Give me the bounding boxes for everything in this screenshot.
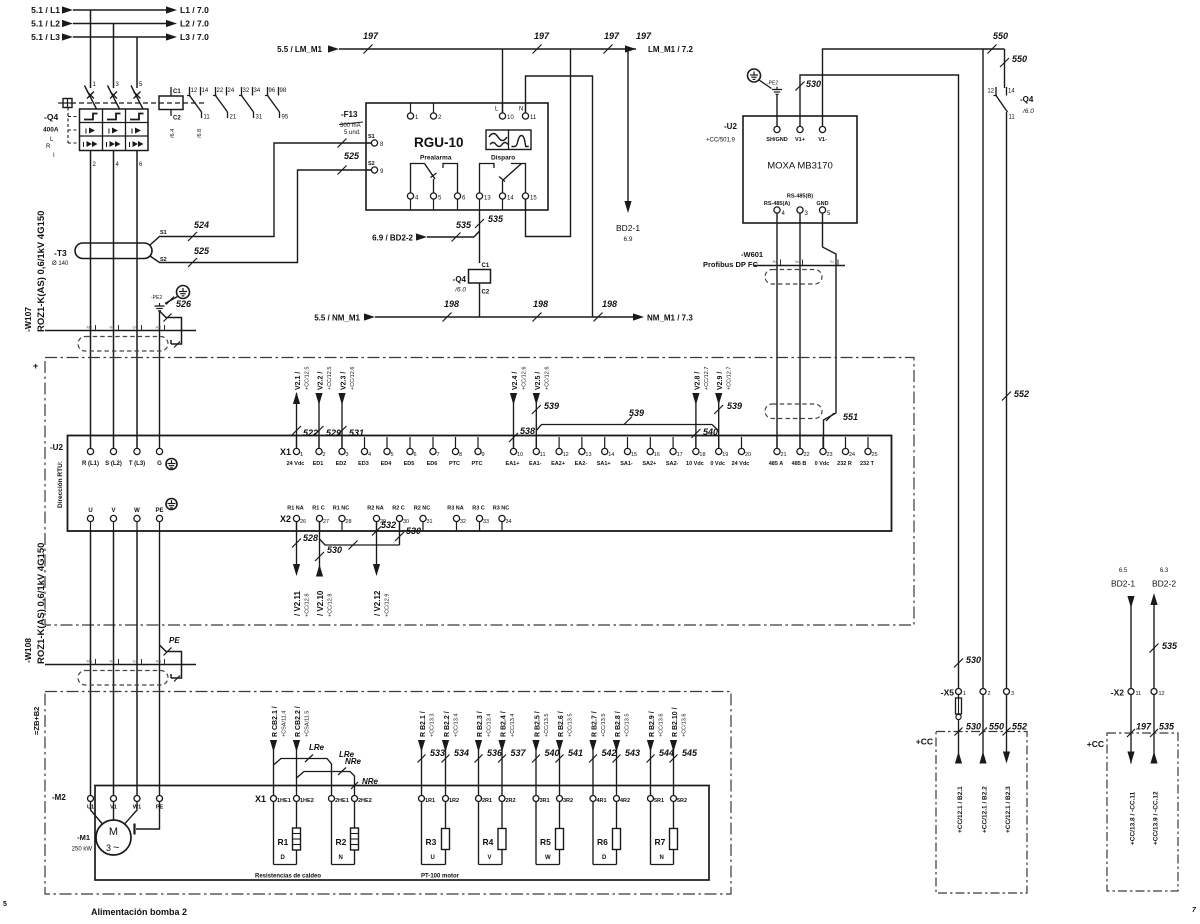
svg-text:D: D bbox=[602, 855, 607, 861]
svg-text:-X2: -X2 bbox=[1111, 688, 1125, 698]
svg-text:L1 / 7.0: L1 / 7.0 bbox=[180, 5, 209, 15]
latch symbol bbox=[130, 114, 144, 120]
svg-text:R1 NA: R1 NA bbox=[287, 506, 304, 512]
svg-text:536: 536 bbox=[487, 748, 503, 758]
svg-text:22: 22 bbox=[217, 88, 224, 94]
svg-text:552: 552 bbox=[1014, 389, 1029, 399]
svg-text:PTC: PTC bbox=[472, 461, 483, 467]
svg-text:+CC/12.9: +CC/12.9 bbox=[385, 594, 391, 617]
M2 terminal 2HE1 bbox=[329, 796, 335, 802]
svg-text:BD2-1: BD2-1 bbox=[616, 223, 640, 233]
svg-text:R3: R3 bbox=[426, 837, 437, 847]
svg-text:550: 550 bbox=[1012, 54, 1027, 64]
svg-text:+CC/12.6: +CC/12.6 bbox=[350, 367, 356, 390]
svg-text:+CC/12.5: +CC/12.5 bbox=[327, 367, 333, 390]
net reference V2.2 bbox=[318, 393, 320, 448]
svg-text:+CC/13.9 / -CC.12: +CC/13.9 / -CC.12 bbox=[1153, 791, 1160, 845]
svg-text:+CC/12.7: +CC/12.7 bbox=[704, 367, 710, 390]
svg-text:197: 197 bbox=[636, 31, 652, 41]
svg-text:R6: R6 bbox=[597, 837, 608, 847]
svg-text:5: 5 bbox=[3, 901, 7, 908]
M2 terminal 3R2 bbox=[557, 796, 563, 802]
svg-text:NM_M1 / 7.3: NM_M1 / 7.3 bbox=[647, 314, 693, 323]
svg-text:-Q4: -Q4 bbox=[44, 112, 58, 122]
X1 pin 3 bbox=[341, 437, 343, 448]
svg-text:ED5: ED5 bbox=[404, 461, 415, 467]
svg-text:19: 19 bbox=[722, 452, 728, 458]
svg-text:26: 26 bbox=[300, 519, 306, 525]
svg-text:+CC/13.5: +CC/13.5 bbox=[544, 714, 550, 737]
svg-text:8: 8 bbox=[459, 452, 462, 458]
svg-text:96: 96 bbox=[269, 88, 276, 94]
svg-text:-PE2: -PE2 bbox=[151, 295, 162, 301]
svg-text:RS-485(B): RS-485(B) bbox=[787, 194, 813, 200]
resistor R4 PT-100 bbox=[478, 802, 480, 865]
M2 terminal V1 bbox=[111, 796, 117, 802]
svg-text:12: 12 bbox=[987, 89, 994, 95]
X1 pin 9 bbox=[477, 437, 479, 448]
svg-text:530: 530 bbox=[966, 722, 981, 732]
breaker trip unit box bbox=[80, 109, 149, 151]
svg-text:+CC/13.6: +CC/13.6 bbox=[659, 714, 665, 737]
wire N from RGU to NM bbox=[526, 76, 593, 317]
svg-text:RGU-10: RGU-10 bbox=[414, 135, 464, 150]
svg-text:W: W bbox=[134, 508, 140, 514]
svg-text:-W108: -W108 bbox=[23, 638, 33, 663]
svg-text:G: G bbox=[157, 461, 162, 467]
svg-text:3: 3 bbox=[346, 452, 349, 458]
svg-text:+CC/12.7: +CC/12.7 bbox=[727, 367, 733, 390]
svg-text:6.9: 6.9 bbox=[623, 236, 632, 243]
svg-text:14: 14 bbox=[1008, 89, 1015, 95]
+CC enclosure right bbox=[1107, 733, 1178, 891]
jumper NRe bbox=[297, 772, 355, 796]
svg-text:6.3: 6.3 bbox=[1160, 568, 1169, 574]
+CC enclosure left bbox=[936, 732, 1027, 894]
wire pole6 down bbox=[136, 151, 138, 449]
svg-text:21: 21 bbox=[230, 115, 237, 121]
svg-text:534: 534 bbox=[454, 748, 469, 758]
wire V1 bbox=[113, 531, 115, 795]
svg-text:R1 NC: R1 NC bbox=[333, 506, 350, 512]
svg-text:Gr: Gr bbox=[133, 325, 138, 330]
resistor R7 PT-100 bbox=[650, 802, 652, 865]
svg-text:V2.1 /: V2.1 / bbox=[295, 372, 302, 390]
X1 pin 14 bbox=[604, 437, 606, 448]
svg-text:2HE1: 2HE1 bbox=[335, 798, 349, 804]
RGU pin 14 bbox=[499, 193, 505, 199]
svg-text:NRe: NRe bbox=[362, 777, 379, 786]
svg-text:530: 530 bbox=[327, 545, 342, 555]
svg-text:Resistencias de caldeo: Resistencias de caldeo bbox=[255, 874, 321, 880]
RGU pin 6 bbox=[454, 193, 460, 199]
X1 pin 7 bbox=[432, 437, 434, 448]
svg-text:R: R bbox=[46, 144, 51, 150]
svg-text:95: 95 bbox=[282, 115, 289, 121]
MOXA terminal V1- bbox=[819, 126, 825, 132]
X1 pin 10 bbox=[513, 437, 515, 448]
X1 pin 21 bbox=[776, 437, 778, 448]
svg-text:531: 531 bbox=[349, 428, 364, 438]
svg-text:535: 535 bbox=[1162, 641, 1178, 651]
svg-text:BD2-1: BD2-1 bbox=[1111, 579, 1135, 589]
svg-text:ED6: ED6 bbox=[427, 461, 438, 467]
svg-text:1: 1 bbox=[300, 452, 303, 458]
svg-text:ED2: ED2 bbox=[336, 461, 347, 467]
W601 shield oval lower bbox=[765, 404, 822, 419]
svg-text:15: 15 bbox=[530, 196, 537, 202]
svg-text:250 kW: 250 kW bbox=[72, 847, 93, 853]
svg-text:2HE2: 2HE2 bbox=[358, 798, 372, 804]
svg-text:V2.4 /: V2.4 / bbox=[512, 372, 519, 390]
M2 terminal 2R2 bbox=[499, 796, 505, 802]
latch symbol bbox=[107, 114, 121, 120]
svg-text:/6.8: /6.8 bbox=[197, 129, 203, 138]
svg-text:+CC/13.4: +CC/13.4 bbox=[487, 714, 493, 737]
svg-text:12: 12 bbox=[563, 452, 569, 458]
M2 terminal PE bbox=[157, 796, 163, 802]
svg-text:+CC/13.5: +CC/13.5 bbox=[625, 714, 631, 737]
M2 terminal U1 bbox=[88, 796, 94, 802]
svg-text:EA2+: EA2+ bbox=[551, 461, 565, 467]
svg-text:Ma: Ma bbox=[87, 325, 93, 330]
wire V2.12 from X2:29 bbox=[376, 522, 378, 564]
svg-text:198: 198 bbox=[444, 299, 459, 309]
svg-text:6: 6 bbox=[414, 452, 417, 458]
RGU pin 4 bbox=[407, 193, 413, 199]
ground PE2 bbox=[177, 286, 190, 299]
svg-text:7: 7 bbox=[437, 452, 440, 458]
svg-text:+CC/13.4: +CC/13.4 bbox=[510, 714, 516, 737]
RGU disparo contact bbox=[480, 164, 495, 193]
svg-text:/6.0: /6.0 bbox=[1022, 108, 1034, 115]
wire stub B2.2 bbox=[982, 732, 984, 764]
svg-text:552: 552 bbox=[1012, 722, 1027, 732]
wire V2.11 from X2:26 bbox=[296, 522, 298, 564]
M2 terminal W1 bbox=[134, 796, 140, 802]
wire net 535 bbox=[479, 210, 481, 263]
svg-text:ED3: ED3 bbox=[358, 461, 369, 467]
M2 terminal 4R2 bbox=[614, 796, 620, 802]
svg-text:24: 24 bbox=[849, 452, 855, 458]
svg-text:-T3: -T3 bbox=[54, 248, 67, 258]
net 522 bbox=[292, 426, 301, 435]
MOXA terminal V1+ bbox=[797, 126, 803, 132]
resistor R5 PT-100 bbox=[535, 802, 537, 865]
svg-text:C1: C1 bbox=[482, 263, 490, 269]
svg-text:ROZ1-K(AS) 0,6/1kV 4G150: ROZ1-K(AS) 0,6/1kV 4G150 bbox=[36, 211, 47, 332]
svg-text:5.1 / L1: 5.1 / L1 bbox=[31, 5, 60, 15]
svg-text:ED4: ED4 bbox=[381, 461, 393, 467]
svg-text:R CB2.1 /: R CB2.1 / bbox=[272, 706, 279, 737]
X1 pin 17 bbox=[672, 437, 674, 448]
svg-text:-M1: -M1 bbox=[77, 833, 90, 842]
svg-text:5.1 / L2: 5.1 / L2 bbox=[31, 19, 60, 29]
M2 terminal 1HE2 bbox=[294, 796, 300, 802]
M2 terminal 1R1 bbox=[419, 796, 425, 802]
svg-text:S1: S1 bbox=[160, 230, 167, 236]
svg-text:532: 532 bbox=[381, 520, 396, 530]
svg-text:232 T: 232 T bbox=[860, 461, 875, 467]
X5 fuse link bbox=[958, 695, 960, 698]
svg-text:2R2: 2R2 bbox=[506, 798, 516, 804]
svg-text:T (L3): T (L3) bbox=[129, 461, 145, 467]
svg-text:I: I bbox=[129, 142, 131, 149]
svg-text:11: 11 bbox=[1136, 691, 1142, 697]
svg-text:R3 NA: R3 NA bbox=[447, 506, 464, 512]
svg-text:N: N bbox=[660, 855, 664, 861]
X1 pin 20 bbox=[741, 437, 743, 448]
svg-text:540: 540 bbox=[545, 748, 560, 758]
svg-text:N: N bbox=[519, 107, 523, 113]
svg-text:4R2: 4R2 bbox=[620, 798, 630, 804]
X1 pin 5 bbox=[386, 437, 388, 448]
svg-text:U: U bbox=[431, 855, 435, 861]
svg-text:R B2.4 /: R B2.4 / bbox=[501, 711, 508, 737]
W107 shield clamp bbox=[160, 311, 182, 344]
svg-text:/ V2.12: / V2.12 bbox=[373, 590, 382, 616]
svg-text:535: 535 bbox=[1159, 722, 1175, 732]
svg-text:LM_M1 / 7.2: LM_M1 / 7.2 bbox=[648, 45, 693, 54]
svg-text:~: ~ bbox=[113, 842, 119, 854]
svg-text:31: 31 bbox=[427, 519, 433, 525]
svg-text:+CC: +CC bbox=[1087, 739, 1104, 749]
net reference V2.9 bbox=[718, 393, 720, 448]
svg-text:10: 10 bbox=[507, 115, 514, 121]
svg-text:5 und.: 5 und. bbox=[344, 130, 361, 136]
RGU pin 1 bbox=[410, 103, 412, 113]
svg-text:/ V2.11: / V2.11 bbox=[293, 591, 302, 616]
resistor R2 bbox=[331, 802, 333, 865]
svg-text:4R1: 4R1 bbox=[597, 798, 607, 804]
RGU pin 5 bbox=[430, 193, 436, 199]
svg-text:14: 14 bbox=[507, 196, 514, 202]
svg-text:Ne: Ne bbox=[110, 659, 116, 664]
svg-text:525: 525 bbox=[344, 151, 360, 161]
svg-text:R B2.3 /: R B2.3 / bbox=[477, 711, 484, 737]
svg-text:C2: C2 bbox=[173, 116, 181, 122]
svg-text:0 Vdc: 0 Vdc bbox=[710, 461, 725, 467]
svg-text:24: 24 bbox=[228, 88, 235, 94]
svg-text:/6.4: /6.4 bbox=[170, 129, 176, 138]
X1 pin 15 bbox=[627, 437, 629, 448]
wire L3 drop bbox=[136, 37, 138, 88]
svg-text:+CC/12.6: +CC/12.6 bbox=[544, 367, 550, 390]
wire V2.10 from X2:27 bbox=[319, 522, 321, 577]
svg-text:2: 2 bbox=[988, 691, 991, 697]
svg-text:+CC/13.8 / -CC.11: +CC/13.8 / -CC.11 bbox=[1130, 791, 1137, 845]
net reference V2.5 bbox=[535, 393, 537, 448]
svg-text:16: 16 bbox=[654, 452, 660, 458]
svg-text:PE: PE bbox=[155, 508, 163, 514]
svg-text:-X5: -X5 bbox=[941, 688, 955, 698]
svg-text:17: 17 bbox=[677, 452, 683, 458]
svg-text:5R1: 5R1 bbox=[654, 798, 664, 804]
svg-text:542: 542 bbox=[602, 748, 617, 758]
RGU pin 15 bbox=[522, 193, 528, 199]
X1 pin 19 bbox=[718, 437, 720, 448]
svg-text:S2: S2 bbox=[368, 161, 375, 167]
U2 terminal R (L1) bbox=[87, 448, 93, 454]
svg-text:+CC/12.1 / B2.1: +CC/12.1 / B2.1 bbox=[957, 786, 964, 833]
svg-text:197: 197 bbox=[534, 31, 550, 41]
svg-text:400A: 400A bbox=[43, 127, 59, 134]
svg-text:14: 14 bbox=[202, 88, 209, 94]
svg-text:485 B: 485 B bbox=[792, 461, 807, 467]
svg-text:538: 538 bbox=[520, 426, 535, 436]
svg-text:11: 11 bbox=[540, 452, 546, 458]
X1 pin 11 bbox=[535, 437, 537, 448]
svg-text:530: 530 bbox=[406, 526, 421, 536]
net 531 bbox=[338, 426, 347, 435]
svg-text:524: 524 bbox=[194, 220, 209, 230]
X1 pin 16 bbox=[649, 437, 651, 448]
net reference V2.1 bbox=[296, 393, 298, 448]
svg-text:L3 / 7.0: L3 / 7.0 bbox=[180, 32, 209, 42]
svg-text:SH/GND: SH/GND bbox=[766, 137, 787, 143]
enclosure ZB+B2 bbox=[45, 692, 731, 895]
wire U1 bbox=[90, 531, 92, 795]
RGU pin 2 bbox=[433, 103, 435, 113]
svg-text:6.9 / BD2-2: 6.9 / BD2-2 bbox=[372, 234, 413, 243]
svg-text:30: 30 bbox=[403, 519, 409, 525]
svg-text:Ve: Ve bbox=[795, 259, 800, 264]
M2 terminal 4R1 bbox=[590, 796, 596, 802]
svg-text:535: 535 bbox=[456, 220, 472, 230]
svg-text:V: V bbox=[488, 855, 492, 861]
RGU pin 13 bbox=[476, 193, 482, 199]
svg-text:13: 13 bbox=[585, 452, 591, 458]
svg-text:X1: X1 bbox=[280, 447, 291, 457]
svg-text:+CC/12.1 / B2.2: +CC/12.1 / B2.2 bbox=[982, 786, 989, 833]
svg-text:-U2: -U2 bbox=[50, 443, 63, 452]
svg-text:R B2.2 /: R B2.2 / bbox=[444, 711, 451, 737]
M2 terminal 2R1 bbox=[476, 796, 482, 802]
svg-text:1HE1: 1HE1 bbox=[277, 798, 291, 804]
U2 terminal G bbox=[156, 448, 162, 454]
svg-text:C1: C1 bbox=[173, 89, 181, 95]
svg-text:R1 C: R1 C bbox=[312, 506, 325, 512]
svg-text:3: 3 bbox=[1011, 691, 1014, 697]
svg-text:+CSA/11.5: +CSA/11.5 bbox=[305, 711, 311, 737]
svg-text:551: 551 bbox=[843, 412, 858, 422]
svg-text:+CC/12.1 / B2.3: +CC/12.1 / B2.3 bbox=[1005, 786, 1012, 833]
svg-text:550: 550 bbox=[993, 31, 1008, 41]
svg-text:Alimentación bomba 2: Alimentación bomba 2 bbox=[91, 907, 187, 917]
svg-text:+CC/13.5: +CC/13.5 bbox=[568, 714, 574, 737]
svg-text:Profibus DP FC: Profibus DP FC bbox=[703, 260, 758, 269]
svg-text:198: 198 bbox=[602, 299, 617, 309]
svg-text:537: 537 bbox=[511, 748, 527, 758]
net 530 slash bbox=[954, 659, 963, 668]
svg-text:V2.3 /: V2.3 / bbox=[341, 372, 348, 390]
svg-text:11: 11 bbox=[530, 115, 537, 121]
svg-text:PT-100 motor: PT-100 motor bbox=[421, 874, 460, 880]
RGU pin 10 bbox=[502, 103, 504, 113]
svg-text:D: D bbox=[281, 855, 286, 861]
svg-text:EA1-: EA1- bbox=[529, 461, 542, 467]
ground PE2 at MOXA bbox=[748, 69, 761, 82]
trip coil C1 C2 bbox=[170, 87, 172, 96]
svg-text:V2.8 /: V2.8 / bbox=[694, 372, 701, 390]
svg-text:-Q4: -Q4 bbox=[453, 275, 467, 284]
svg-text:33: 33 bbox=[483, 519, 489, 525]
svg-text:+CC/12.8: +CC/12.8 bbox=[305, 594, 311, 617]
svg-text:Ø 140: Ø 140 bbox=[52, 261, 69, 267]
svg-text:+CC/13.3: +CC/13.3 bbox=[430, 714, 436, 737]
svg-text:485 A: 485 A bbox=[769, 461, 784, 467]
svg-text:541: 541 bbox=[568, 748, 583, 758]
X1 pin 23 bbox=[822, 437, 824, 448]
Q4 aux contact 12/14/11 right bbox=[1004, 49, 1006, 88]
svg-text:533: 533 bbox=[430, 748, 445, 758]
svg-text:545: 545 bbox=[682, 748, 698, 758]
svg-text:5.5 / LM_M1: 5.5 / LM_M1 bbox=[277, 45, 322, 54]
panel dashed enclosure + bbox=[45, 358, 914, 626]
svg-text:PE: PE bbox=[169, 636, 180, 645]
RGU trip icon bbox=[486, 130, 531, 150]
svg-text:S (L2): S (L2) bbox=[105, 461, 122, 467]
svg-text:544: 544 bbox=[659, 748, 674, 758]
svg-text:Prealarma: Prealarma bbox=[420, 155, 452, 162]
svg-text:V: V bbox=[111, 508, 115, 514]
svg-text:+CC/12.5: +CC/12.5 bbox=[305, 367, 311, 390]
svg-text:23: 23 bbox=[827, 452, 833, 458]
svg-text:11: 11 bbox=[204, 115, 211, 121]
svg-text:20: 20 bbox=[745, 452, 751, 458]
M2 terminal 2HE2 bbox=[352, 796, 358, 802]
X1 pin 1 bbox=[296, 437, 298, 448]
svg-text:197: 197 bbox=[604, 31, 620, 41]
svg-text:528: 528 bbox=[303, 533, 318, 543]
svg-text:MOXA MB3170: MOXA MB3170 bbox=[767, 161, 832, 172]
M2 terminal 1R2 bbox=[443, 796, 449, 802]
wire L2 drop bbox=[113, 24, 115, 89]
svg-text:+: + bbox=[33, 361, 38, 371]
svg-text:526: 526 bbox=[176, 299, 192, 309]
svg-text:5: 5 bbox=[391, 452, 394, 458]
svg-text:+CC/12.8: +CC/12.8 bbox=[328, 594, 334, 617]
svg-text:4: 4 bbox=[368, 452, 371, 458]
svg-text:530: 530 bbox=[966, 655, 981, 665]
MOXA terminal SH/GND bbox=[774, 126, 780, 132]
svg-text:L2 / 7.0: L2 / 7.0 bbox=[180, 19, 209, 29]
svg-text:R B2.9 /: R B2.9 / bbox=[649, 711, 656, 737]
svg-text:V1+: V1+ bbox=[795, 137, 805, 143]
svg-text:+CC/13.6: +CC/13.6 bbox=[682, 714, 688, 737]
wire 550 from V1- bbox=[823, 49, 1005, 126]
svg-text:R B2.10 /: R B2.10 / bbox=[672, 707, 679, 737]
svg-text:3R2: 3R2 bbox=[563, 798, 573, 804]
svg-text:R5: R5 bbox=[540, 837, 551, 847]
svg-text:550: 550 bbox=[989, 722, 1004, 732]
wire stub B2.1 bbox=[958, 732, 960, 764]
wire RS485B to X1:22 bbox=[799, 213, 801, 448]
W108 shield clamp bbox=[160, 645, 182, 678]
svg-text:540: 540 bbox=[703, 427, 718, 437]
net reference V2.8 bbox=[695, 393, 697, 448]
svg-text:I: I bbox=[131, 129, 133, 136]
net 551 clamp bbox=[824, 404, 837, 448]
svg-text:/6.0: /6.0 bbox=[454, 287, 466, 294]
svg-text:27: 27 bbox=[323, 519, 329, 525]
X1 pin 22 bbox=[799, 437, 801, 448]
svg-text:+CC: +CC bbox=[916, 737, 933, 747]
svg-text:3R1: 3R1 bbox=[540, 798, 550, 804]
svg-text:-PE2: -PE2 bbox=[767, 81, 778, 87]
svg-text:34: 34 bbox=[254, 88, 261, 94]
svg-text:+CC/501.9: +CC/501.9 bbox=[706, 138, 736, 144]
